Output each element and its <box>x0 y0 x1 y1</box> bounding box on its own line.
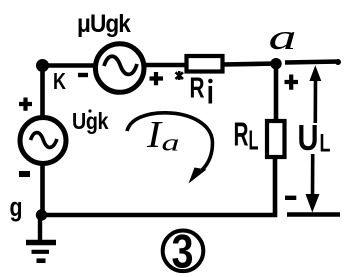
node g <box>36 209 47 220</box>
svg-text:R: R <box>234 116 249 153</box>
polarity minus of U1 <box>78 73 88 77</box>
value label Ugk <box>72 108 109 134</box>
value label Ri <box>190 73 213 105</box>
current arrow Ia <box>127 113 213 184</box>
resistor RL <box>267 121 285 157</box>
node a <box>270 58 281 69</box>
polarity minus of U2 <box>19 171 30 177</box>
label K <box>53 68 66 94</box>
wire top: resistor Ri to node a <box>222 64 276 65</box>
polarity plus of U2 <box>19 98 32 111</box>
label a <box>269 17 297 57</box>
voltage arrow UL upper part <box>309 65 321 123</box>
figure number 3 <box>163 225 204 277</box>
value label RL <box>234 116 259 156</box>
svg-text:a: a <box>269 17 297 57</box>
svg-text:μUgk: μUgk <box>77 10 131 38</box>
svg-text:U: U <box>298 117 319 158</box>
svg-text:R: R <box>190 73 205 105</box>
wire bottom: node g to RL corner <box>40 158 275 215</box>
svg-text:L: L <box>320 130 331 158</box>
wire left vertical: source U2 down to node g <box>40 164 45 216</box>
polarity minus at RL bottom <box>285 196 296 200</box>
value label UL <box>298 117 331 158</box>
wire left vertical: node K down to source U2 <box>40 63 45 117</box>
polarity plus of U1 <box>150 72 164 85</box>
svg-text:g: g <box>10 192 23 222</box>
resistor Ri <box>187 56 223 72</box>
asterisk mark <box>176 71 184 80</box>
AC source U2 (Ugk) <box>20 118 66 164</box>
node K <box>36 59 49 72</box>
ground <box>26 215 56 261</box>
AC source U1 (controlled source uUgk) <box>95 44 144 93</box>
wire: node a to right terminal <box>285 59 341 65</box>
voltage arrow UL lower part <box>306 154 320 213</box>
svg-text:L: L <box>249 125 259 156</box>
reference line right terminal <box>287 212 340 216</box>
wire top: source U1 to resistor Ri <box>145 63 187 68</box>
svg-text:a: a <box>162 131 180 157</box>
value label uUgk <box>77 10 131 38</box>
label Ia <box>146 114 180 157</box>
svg-text:K: K <box>53 68 66 94</box>
label g <box>10 192 23 222</box>
wire top: node K to source U1 <box>40 63 94 68</box>
svg-text:3: 3 <box>172 225 194 277</box>
polarity plus at node a <box>285 75 299 90</box>
wire right vertical: node a down to RL <box>274 63 279 120</box>
